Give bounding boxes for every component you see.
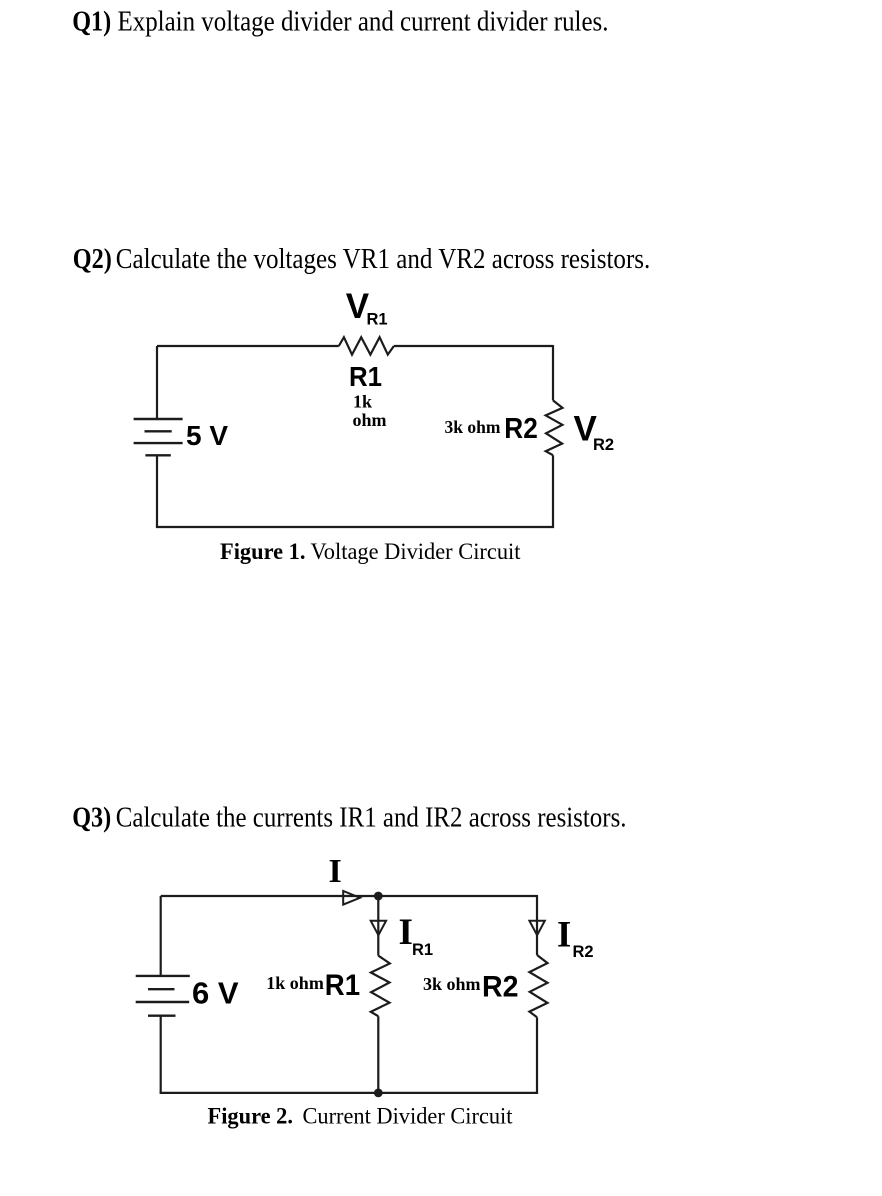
svg-text:Current Divider Circuit: Current Divider Circuit	[303, 1104, 514, 1129]
svg-text:R1: R1	[367, 311, 388, 329]
svg-text:Figure 1.: Figure 1.	[220, 539, 306, 564]
wire figure2 right lower segment	[536, 1017, 538, 1093]
svg-text:R1: R1	[349, 361, 382, 392]
svg-text:Explain voltage divider and cu: Explain voltage divider and current divi…	[118, 7, 609, 38]
svg-text:Q3): Q3)	[72, 802, 111, 833]
wire figure2 middle branch lower segment	[377, 1016, 379, 1093]
resistor R1 zigzag (figure 2)	[371, 956, 390, 1017]
wire figure2 right upper segment	[536, 895, 538, 955]
svg-text:Calculate the currents IR1 and: Calculate the currents IR1 and IR2 acros…	[116, 802, 627, 833]
wire figure1 right lower segment	[552, 455, 554, 527]
wire figure2 top segment right of node A	[378, 895, 537, 897]
svg-text:I: I	[557, 913, 571, 954]
wire figure2 top segment left of node A	[161, 895, 379, 897]
battery V1 5V positive long plate (top)	[134, 418, 183, 420]
svg-text:Q1): Q1)	[72, 7, 111, 38]
svg-text:R2: R2	[482, 970, 519, 1003]
svg-text:Figure 2.: Figure 2.	[208, 1104, 294, 1129]
svg-text:R2: R2	[593, 436, 614, 454]
current arrow IR2 (open triangle, points down into R2 branch)	[529, 921, 544, 936]
svg-text:R1: R1	[325, 969, 360, 1002]
wire figure1 top-left segment	[157, 345, 339, 347]
battery V1 long plate	[134, 442, 183, 444]
svg-text:Q2): Q2)	[73, 244, 112, 275]
node A junction dot (top)	[374, 892, 383, 901]
svg-text:1k: 1k	[353, 392, 372, 412]
svg-text:R2: R2	[573, 943, 594, 961]
node B junction dot (bottom)	[374, 1089, 383, 1098]
wire figure2 bottom segment right of node B	[378, 1092, 538, 1094]
wire figure1 left lower segment	[156, 455, 158, 527]
svg-text:I: I	[399, 912, 413, 953]
svg-text:5 V: 5 V	[186, 420, 228, 451]
svg-text:3k ohm: 3k ohm	[423, 974, 481, 994]
svg-text:Calculate the voltages VR1 and: Calculate the voltages VR1 and VR2 acros…	[116, 244, 651, 275]
current arrow IR1 (open triangle, points down into R1 branch)	[371, 921, 386, 936]
resistor R1 zigzag (figure 1)	[339, 337, 394, 354]
wire figure1 bottom segment	[156, 526, 554, 528]
battery V2 long plate	[136, 1001, 190, 1003]
wire figure2 bottom segment left of node B	[160, 1092, 379, 1094]
svg-text:1k ohm: 1k ohm	[266, 973, 324, 993]
wire figure1 top-right segment	[394, 345, 553, 347]
svg-text:3k ohm: 3k ohm	[445, 417, 501, 437]
wire figure1 right upper segment	[552, 345, 554, 400]
wire figure2 middle branch upper segment	[377, 896, 379, 956]
wire figure2 left upper segment	[160, 896, 162, 976]
svg-text:R1: R1	[412, 941, 433, 959]
wire figure1 left upper segment	[156, 346, 158, 419]
svg-text:Voltage Divider Circuit: Voltage Divider Circuit	[311, 539, 522, 564]
svg-text:I: I	[329, 853, 342, 890]
battery V1 negative short plate (bottom)	[145, 454, 170, 456]
wire figure2 left lower segment	[160, 1016, 162, 1093]
current arrow I (open triangle, points right along top wire)	[343, 891, 360, 905]
battery V1 short plate	[145, 430, 172, 432]
resistor R2 zigzag (figure 2)	[529, 955, 547, 1017]
battery V2 short plate	[148, 988, 175, 990]
resistor R2 zigzag (figure 1)	[546, 400, 563, 455]
battery V2 negative short plate (bottom)	[148, 1015, 176, 1017]
svg-text:ohm: ohm	[353, 410, 387, 430]
battery V2 6V positive long plate (top)	[136, 975, 190, 977]
svg-text:6 V: 6 V	[192, 976, 239, 1011]
svg-text:R2: R2	[504, 413, 538, 445]
